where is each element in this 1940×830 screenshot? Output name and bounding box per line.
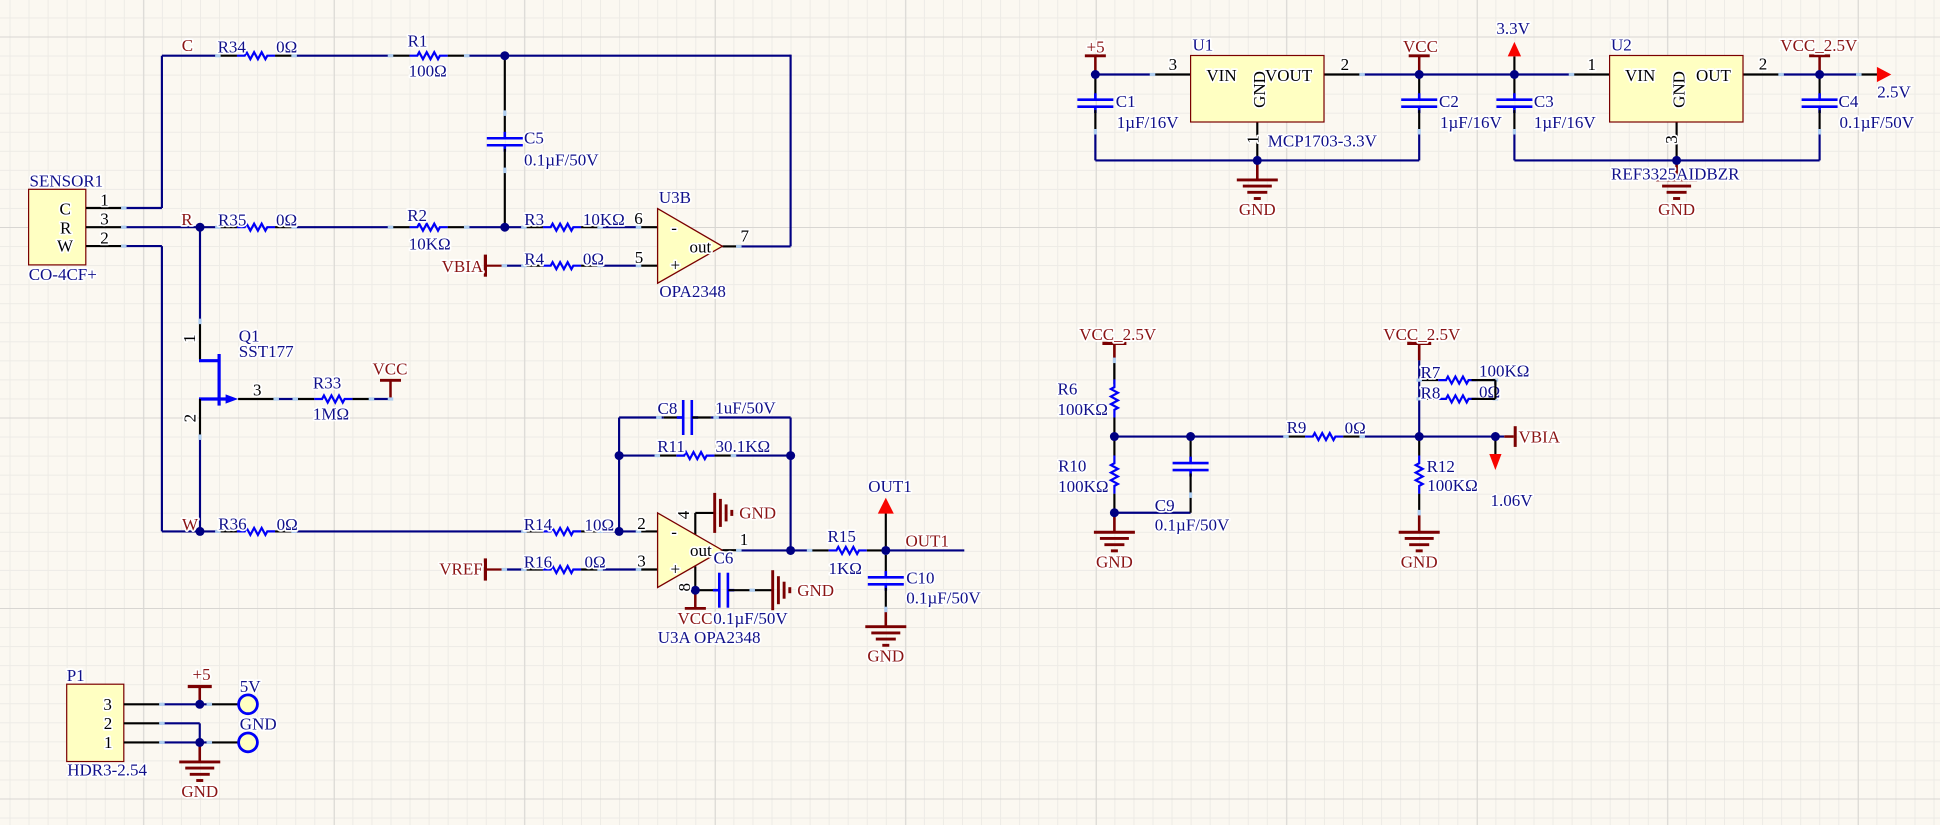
svg-text:REF3325AIDBZR: REF3325AIDBZR [1611,165,1740,184]
svg-text:1MΩ: 1MΩ [313,405,349,424]
svg-text:R15: R15 [828,527,856,546]
svg-text:VCC: VCC [1403,37,1438,56]
svg-text:1KΩ: 1KΩ [829,559,862,578]
svg-text:SST177: SST177 [239,342,294,361]
svg-text:1: 1 [104,733,113,752]
svg-text:2: 2 [1341,55,1350,74]
svg-text:1: 1 [1588,55,1597,74]
svg-text:R12: R12 [1427,457,1455,476]
svg-text:GND: GND [867,647,904,666]
svg-text:U3B: U3B [659,188,691,207]
svg-text:0.1µF/50V: 0.1µF/50V [524,150,599,169]
svg-text:-: - [671,218,677,237]
svg-text:GND: GND [797,581,834,600]
svg-text:C1: C1 [1116,92,1136,111]
svg-text:C: C [182,36,193,55]
svg-text:3: 3 [1169,55,1178,74]
svg-text:3: 3 [1662,135,1681,144]
svg-text:5: 5 [635,248,644,267]
svg-text:C3: C3 [1534,92,1554,111]
svg-text:OPA2348: OPA2348 [659,282,725,301]
svg-text:30.1KΩ: 30.1KΩ [716,437,771,456]
svg-text:VCC: VCC [373,360,408,379]
svg-text:R36: R36 [218,515,246,534]
svg-text:100Ω: 100Ω [409,61,447,80]
svg-text:1µF/16V: 1µF/16V [1440,113,1502,132]
svg-text:10KΩ: 10KΩ [583,210,625,229]
svg-text:5V: 5V [240,677,261,696]
svg-text:+: + [671,255,681,274]
svg-text:6: 6 [634,209,643,228]
svg-text:3: 3 [103,695,112,714]
svg-text:out: out [690,237,712,256]
svg-text:R6: R6 [1058,380,1078,399]
svg-text:R3: R3 [524,210,544,229]
svg-text:GND: GND [1401,552,1438,571]
svg-text:VIN: VIN [1206,66,1236,85]
svg-text:GND: GND [181,782,218,801]
svg-text:3: 3 [100,210,109,229]
svg-text:-: - [671,523,677,542]
svg-text:0Ω: 0Ω [585,553,606,572]
svg-text:C5: C5 [524,128,544,147]
svg-text:8: 8 [675,583,694,592]
svg-text:VOUT: VOUT [1265,66,1313,85]
svg-text:3.3V: 3.3V [1496,19,1530,38]
svg-text:U3A OPA2348: U3A OPA2348 [658,628,761,647]
svg-text:GND: GND [240,715,277,734]
svg-text:+5: +5 [1087,37,1105,56]
svg-text:OUT: OUT [1696,66,1732,85]
svg-text:VREF: VREF [439,560,482,579]
svg-text:1: 1 [1243,135,1262,144]
svg-text:+5: +5 [193,665,211,684]
svg-text:10Ω: 10Ω [585,516,615,535]
svg-text:0.1µF/50V: 0.1µF/50V [713,609,788,628]
svg-text:R35: R35 [218,211,246,230]
svg-text:R33: R33 [313,374,341,393]
svg-text:GND: GND [1096,552,1133,571]
svg-text:U1: U1 [1193,36,1214,55]
svg-text:2: 2 [104,714,113,733]
svg-text:U2: U2 [1611,36,1632,55]
svg-text:C6: C6 [714,549,734,568]
svg-text:3: 3 [253,381,262,400]
svg-text:R10: R10 [1058,457,1086,476]
svg-text:100KΩ: 100KΩ [1058,400,1108,419]
svg-text:C10: C10 [906,568,934,587]
svg-text:VCC_2.5V: VCC_2.5V [1780,36,1858,55]
svg-text:0Ω: 0Ω [277,515,298,534]
svg-text:4: 4 [674,510,693,519]
svg-text:R14: R14 [524,515,553,534]
svg-text:VCC_2.5V: VCC_2.5V [1383,325,1461,344]
svg-text:2.5V: 2.5V [1877,83,1911,102]
svg-text:0Ω: 0Ω [276,37,297,56]
svg-text:1: 1 [180,334,199,343]
svg-text:MCP1703-3.3V: MCP1703-3.3V [1268,131,1378,150]
svg-text:OUT1: OUT1 [906,531,949,550]
svg-text:100KΩ: 100KΩ [1427,476,1477,495]
svg-text:C4: C4 [1839,92,1859,111]
svg-text:1: 1 [100,191,109,210]
svg-text:100KΩ: 100KΩ [1479,362,1529,381]
svg-text:VBIA: VBIA [442,257,484,276]
svg-text:W: W [57,237,74,256]
svg-text:R4: R4 [524,250,544,269]
svg-text:GND: GND [1658,200,1695,219]
svg-text:0Ω: 0Ω [583,250,604,269]
svg-text:C9: C9 [1155,496,1175,515]
svg-text:100KΩ: 100KΩ [1058,477,1108,496]
svg-text:10KΩ: 10KΩ [409,234,451,253]
svg-text:OUT1: OUT1 [868,477,911,496]
svg-text:0.1µF/50V: 0.1µF/50V [1155,516,1230,535]
svg-text:1µF/16V: 1µF/16V [1534,113,1596,132]
svg-text:GND: GND [1670,71,1689,108]
svg-text:out: out [690,541,712,560]
svg-text:R7: R7 [1421,363,1441,382]
svg-text:R9: R9 [1287,418,1307,437]
svg-text:VCC_2.5V: VCC_2.5V [1079,325,1157,344]
svg-text:R: R [181,210,193,229]
svg-text:1µF/16V: 1µF/16V [1117,113,1179,132]
svg-text:C: C [60,200,71,219]
svg-text:0.1µF/50V: 0.1µF/50V [1840,113,1915,132]
svg-text:1uF/50V: 1uF/50V [715,399,776,418]
svg-text:2: 2 [637,514,646,533]
svg-text:0Ω: 0Ω [276,211,297,230]
svg-text:VIN: VIN [1625,66,1655,85]
svg-text:CO-4CF+: CO-4CF+ [29,265,97,284]
svg-text:2: 2 [100,229,109,248]
svg-text:R11: R11 [657,437,685,456]
svg-text:VBIA: VBIA [1519,427,1561,446]
svg-text:C8: C8 [658,399,678,418]
svg-text:1: 1 [740,530,749,549]
svg-text:SENSOR1: SENSOR1 [30,171,104,190]
svg-text:P1: P1 [67,666,85,685]
svg-text:VCC: VCC [678,609,713,628]
svg-text:0Ω: 0Ω [1345,419,1366,438]
svg-text:3: 3 [637,552,646,571]
svg-text:R16: R16 [524,553,552,572]
svg-text:1.06V: 1.06V [1491,491,1534,510]
svg-text:2: 2 [1759,55,1768,74]
svg-text:GND: GND [1250,71,1269,108]
svg-text:R1: R1 [408,31,428,50]
svg-text:HDR3-2.54: HDR3-2.54 [67,760,147,779]
svg-text:GND: GND [739,504,776,523]
svg-text:2: 2 [180,414,199,423]
svg-text:R2: R2 [407,206,427,225]
svg-text:7: 7 [741,226,750,245]
svg-text:C2: C2 [1439,92,1459,111]
svg-text:R34: R34 [218,37,247,56]
svg-text:W: W [182,515,199,534]
svg-text:0.1µF/50V: 0.1µF/50V [906,588,981,607]
svg-text:R: R [60,219,72,238]
svg-text:+: + [671,559,681,578]
svg-text:GND: GND [1239,200,1276,219]
svg-text:R8: R8 [1421,383,1441,402]
